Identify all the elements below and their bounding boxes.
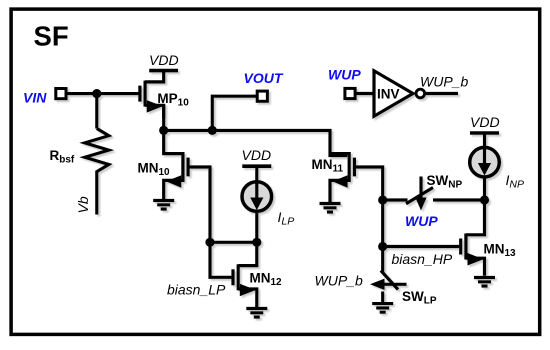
svg-text:WUP_b: WUP_b: [420, 74, 468, 90]
svg-text:Vb: Vb: [75, 196, 91, 213]
svg-text:VIN: VIN: [23, 90, 47, 106]
svg-text:WUP: WUP: [405, 213, 438, 229]
svg-text:VOUT: VOUT: [244, 70, 284, 86]
svg-text:biasn_LP: biasn_LP: [167, 282, 226, 298]
svg-text:WUP: WUP: [328, 67, 361, 83]
svg-text:VDD: VDD: [242, 147, 272, 163]
svg-text:biasn_HP: biasn_HP: [392, 251, 453, 267]
svg-text:WUP_b: WUP_b: [315, 273, 363, 289]
svg-text:VDD: VDD: [470, 114, 500, 130]
svg-text:SF: SF: [34, 21, 69, 52]
svg-text:VDD: VDD: [149, 52, 179, 68]
svg-text:INV: INV: [377, 87, 400, 102]
